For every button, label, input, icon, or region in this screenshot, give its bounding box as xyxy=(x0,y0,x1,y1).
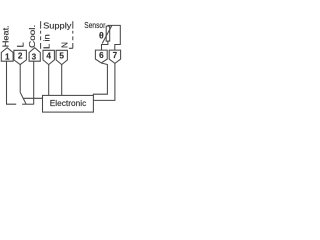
switch blade (from terminal 2 wire, slanting down-right) xyxy=(20,92,26,104)
svg-text:Heat.: Heat. xyxy=(0,25,10,47)
sensor bottom wire (bottom of R to terminal 6) xyxy=(102,41,108,50)
terminal 5 (point-down pentagon) xyxy=(56,50,67,64)
wire from terminal 4 into box top xyxy=(48,65,50,96)
wire contact to electronic box (left side) xyxy=(23,97,42,99)
svg-text:L: L xyxy=(16,42,26,47)
terminal 1 (point-up pentagon) xyxy=(1,48,13,62)
wire from terminal 3 (down) xyxy=(33,61,35,104)
terminal 7 (point-down pentagon) xyxy=(109,50,120,63)
svg-text:L in: L in xyxy=(42,34,52,49)
wire from terminal 7 to box right side xyxy=(93,63,115,100)
supply bracket left bar xyxy=(40,21,42,29)
supply bracket right bar xyxy=(72,21,74,29)
sensor thermistor diagonal stroke xyxy=(102,25,112,43)
sensor loop wire (top of R, over to terminal 7) xyxy=(108,25,120,50)
svg-text:3: 3 xyxy=(32,52,37,61)
terminal 4 (point-down pentagon) xyxy=(43,50,54,64)
svg-text:N: N xyxy=(59,42,69,48)
svg-text:Cool.: Cool. xyxy=(27,25,37,48)
sensor thermistor R (rect) xyxy=(106,26,110,41)
contact segment to terminal 3 bottom xyxy=(22,103,34,105)
supply bracket right dashes + bottom hook xyxy=(69,31,73,49)
wire from terminal 5 into box top xyxy=(61,65,63,96)
svg-text:4: 4 xyxy=(46,51,51,60)
svg-text:6: 6 xyxy=(99,51,104,60)
svg-text:1: 1 xyxy=(5,52,10,61)
svg-text:Sensor: Sensor xyxy=(84,21,105,30)
wire from terminal 1 (down, elbow right to contact) xyxy=(7,61,17,104)
electronic box xyxy=(43,95,94,112)
terminal 3 (point-up pentagon) xyxy=(29,48,40,62)
terminal 6 (point-down pentagon) xyxy=(95,50,107,63)
svg-text:Supply: Supply xyxy=(43,21,72,31)
supply bracket left dashes xyxy=(40,31,42,49)
terminal 2 (point-down pentagon) xyxy=(14,50,27,64)
svg-text:Electronic: Electronic xyxy=(50,99,87,108)
svg-text:7: 7 xyxy=(113,51,118,60)
wire from terminal 6 to box right side xyxy=(93,63,107,95)
svg-text:2: 2 xyxy=(18,51,23,60)
svg-text:5: 5 xyxy=(59,51,64,60)
wire from terminal 2 (common, down) xyxy=(19,65,21,93)
svg-text:θ: θ xyxy=(99,30,104,40)
